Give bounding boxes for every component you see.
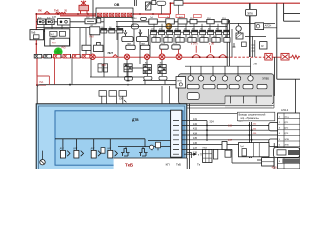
- rounded box EPV lower: [187, 93, 199, 100]
- breaker V top with hatch: [93, 0, 151, 18]
- wire black row y77: [90, 58, 165, 85]
- svg-text:ЭПК: ЭПК: [247, 11, 253, 15]
- svg-text:РкЛ: РкЛ: [90, 36, 95, 39]
- wire comb verticals rows A-B: [154, 24, 226, 30]
- sensor block D2: [73, 148, 83, 158]
- mini box on vertical bus: [187, 153, 192, 159]
- breaker red box right 2: [281, 53, 289, 60]
- svg-text:АЛСН: АЛСН: [265, 24, 272, 27]
- contact chain black caps: [42, 54, 80, 58]
- node red dots row y57: [192, 56, 227, 58]
- svg-text:6: 6: [252, 77, 253, 79]
- svg-text:Д2Т: Д2Т: [73, 148, 78, 150]
- valve circle 4: [222, 76, 227, 81]
- svg-text:Д4Т: Д4Т: [107, 148, 112, 150]
- svg-text:324: 324: [209, 120, 214, 124]
- rounded box row C2: [136, 37, 147, 42]
- svg-text:ПкБ: ПкБ: [31, 32, 36, 35]
- resistor R bottom: [222, 142, 227, 150]
- box EPV left white: [176, 77, 186, 88]
- resistor top: [157, 1, 166, 5]
- labels EPV circles: [193, 77, 254, 79]
- relay small in panel right: [156, 142, 161, 148]
- node dot on enclosure: [127, 84, 129, 86]
- box with circle right: [255, 23, 264, 30]
- labels tiny row B: [151, 29, 219, 31]
- relay grid box VZ2: [158, 65, 166, 74]
- relay box row C9: [224, 38, 230, 43]
- wire red dashed bus segment: [226, 56, 265, 58]
- switch PkT red: [113, 55, 118, 58]
- wire KVN bus: [249, 122, 251, 158]
- pressure stack right: [236, 31, 243, 39]
- relay box row C7: [200, 38, 208, 43]
- svg-text:РЫ: РЫ: [52, 37, 55, 39]
- inductor TkB coil on bus B: [56, 13, 66, 15]
- svg-text:435: 435: [193, 137, 198, 140]
- svg-text:132: 132: [228, 124, 233, 127]
- svg-text:ЭПК: ЭПК: [284, 144, 289, 146]
- svg-text:АЛ4-2: АЛ4-2: [281, 108, 289, 112]
- sensor block D4: [107, 148, 117, 158]
- caption text lines: [190, 112, 275, 121]
- wire y36 right: [245, 36, 266, 57]
- wire black y23.5 right: [230, 22, 275, 24]
- labels tiny left rows: [38, 17, 137, 29]
- svg-text:ДТВ: ДТВ: [132, 118, 139, 122]
- rounded box row D3: [160, 45, 168, 49]
- wire y96: [225, 96, 272, 103]
- gauge circle right: [236, 26, 241, 31]
- wire top line of EPV: [185, 58, 251, 75]
- svg-text:ПкТ: ПкТ: [50, 34, 55, 36]
- contact chain cross marks black: [35, 55, 47, 58]
- wire pin leads: [182, 121, 278, 150]
- switch box small: [97, 18, 101, 23]
- svg-text:ТкБ: ТкБ: [176, 162, 181, 166]
- svg-text:ОВ: ОВ: [114, 3, 120, 7]
- svg-text:к ЭВ: к ЭВ: [209, 42, 214, 45]
- checkered relay row B right: [151, 30, 230, 34]
- relay coil red circle 3: [144, 54, 149, 59]
- wire box small left: [225, 150, 231, 157]
- label box white bottom: [114, 158, 231, 169]
- relay box row C8: [212, 38, 220, 43]
- rounded box row C1: [122, 37, 133, 42]
- svg-text:ЗБ: ЗБ: [64, 9, 68, 12]
- resistor zigzag right: [292, 55, 301, 59]
- nested border fill below EPV: [225, 96, 272, 108]
- contact symbol mid 2: [139, 30, 142, 36]
- small box right of PV4: [213, 150, 217, 160]
- svg-text:ПНТ: ПНТ: [108, 51, 114, 55]
- relay coil red circle 5: [176, 54, 182, 60]
- contact arc red 1: [193, 55, 200, 57]
- wire red vertical to Rk1: [37, 58, 46, 85]
- svg-text:434: 434: [193, 132, 198, 135]
- rounded box row D2: [140, 45, 149, 49]
- terminal rounded box EPV row 5: [243, 84, 253, 88]
- checkered pair mid: [98, 64, 108, 72]
- svg-text:Д1Т: Д1Т: [60, 148, 65, 150]
- switch contact on bus B: [44, 12, 50, 15]
- svg-text:ТкБ: ТкБ: [125, 163, 134, 168]
- small box right: [242, 42, 247, 47]
- wire y80.4 under grids: [143, 74, 176, 81]
- wire panel link y140: [148, 139, 171, 141]
- svg-text:137: 137: [193, 147, 198, 150]
- svg-text:общ.: общ.: [284, 116, 289, 118]
- valve circle 1: [188, 76, 193, 81]
- node bus 324: [206, 120, 214, 141]
- wire battery drops: [104, 18, 133, 40]
- component on blue left of cluster: [101, 148, 105, 154]
- svg-text:ТрПШ: ТрПШ: [131, 18, 137, 20]
- label frame red 1: [159, 14, 170, 17]
- relay box row A2: [166, 19, 175, 24]
- terminal rounded box EPV row 2: [203, 84, 215, 88]
- box PkB: [30, 30, 44, 40]
- wire red bus y57: [36, 56, 292, 58]
- box RY group: [50, 37, 69, 46]
- contact chain red row y56: [34, 54, 90, 58]
- svg-text:+ПВ: +ПВ: [253, 64, 258, 66]
- labels tiny row C: [153, 36, 228, 38]
- svg-text:ОВ: ОВ: [119, 96, 123, 100]
- svg-text:5: 5: [240, 77, 241, 79]
- wire panel right links: [118, 147, 171, 151]
- relay coil red circle 2: [124, 54, 129, 59]
- resistor R5: [97, 42, 101, 49]
- wire panel internal main: [55, 139, 145, 151]
- wire verticals mid grid: [44, 23, 222, 85]
- junction box small 1: [99, 91, 106, 97]
- svg-text:4: 4: [227, 77, 228, 79]
- svg-text:42-В: 42-В: [272, 166, 277, 169]
- svg-text:РЮ: РЮ: [102, 64, 107, 67]
- relay box top edge 2: [174, 1, 183, 6]
- wire black row y21.5: [36, 21, 230, 23]
- svg-text:ЭПВ: ЭПВ: [177, 80, 182, 82]
- nested border lines below EPV: [180, 96, 274, 108]
- valve assembly top right: [246, 3, 257, 57]
- panel DTV outer box: [36, 104, 187, 170]
- wire black row y31.5: [44, 31, 230, 32]
- wire bottom right links: [232, 125, 274, 169]
- svg-text:кор. «Триангель»: кор. «Триангель»: [241, 118, 260, 120]
- wire black row y26.4: [116, 22, 227, 27]
- oval box y18: [141, 17, 147, 20]
- wire red left vertical bus: [35, 13, 37, 58]
- valve circle 3: [210, 76, 215, 81]
- junction box small 3: [119, 91, 126, 97]
- wire drops to panel top: [102, 86, 170, 103]
- relay grid box VZ1: [143, 65, 151, 74]
- svg-text:131: 131: [193, 118, 198, 121]
- wire black double vertical x227: [227, 20, 229, 66]
- relay cluster panel 1: [121, 149, 130, 156]
- breaker red box right 1: [265, 53, 272, 60]
- svg-text:к ЭТЛ: к ЭТЛ: [191, 42, 198, 45]
- relay box row A1: [149, 19, 158, 24]
- relay box ZB2: [85, 19, 96, 24]
- relay box PV4: [203, 148, 212, 163]
- contactor block 3: [58, 19, 71, 25]
- valve circle 2: [198, 76, 203, 81]
- svg-text:3: 3: [215, 77, 216, 79]
- red verticals from bus y57 up: [161, 46, 210, 54]
- sensor block D1: [60, 148, 70, 158]
- capacitor C1 top: [135, 0, 137, 6]
- relay box row A4: [190, 19, 197, 23]
- labels tiny row D: [127, 43, 178, 45]
- svg-text:ЭПВ: ЭПВ: [284, 139, 289, 141]
- relay box RkV: [94, 45, 103, 51]
- terminal rounded box EPV row 1: [187, 84, 199, 88]
- svg-text:Д3Т: Д3Т: [91, 148, 96, 150]
- contact chain cross marks: [54, 55, 85, 58]
- rounded box under VZ1: [144, 76, 152, 80]
- panel DTV inner box: [55, 111, 183, 165]
- relay cluster panel 2: [139, 149, 148, 156]
- lamp circle panel: [40, 151, 45, 165]
- relay box row C3: [152, 38, 160, 43]
- marker green arrow: [54, 47, 63, 56]
- table terminal list: [278, 113, 300, 169]
- box group PkT Rk: [45, 29, 70, 46]
- svg-text:ЭПВ5: ЭПВ5: [262, 76, 269, 80]
- breaker BA red switch assembly: [79, 1, 89, 15]
- relay coil red circle 1: [90, 54, 95, 59]
- wire comb verticals rows B-C: [156, 35, 226, 38]
- svg-text:РкТ: РкТ: [52, 42, 56, 44]
- svg-text:136: 136: [193, 142, 198, 145]
- switch OV symbol: [124, 100, 126, 102]
- enclosure rounded top edge: [37, 85, 178, 104]
- wire right edge verticals: [277, 3, 300, 79]
- panel DTV outer inner border: [38, 106, 184, 170]
- valve circle 6: [248, 76, 253, 81]
- label frame red 2: [176, 14, 185, 17]
- wire right lower: [274, 57, 300, 113]
- junction box small 2: [109, 91, 116, 97]
- relay box RkT: [82, 45, 91, 50]
- node brass junction: [166, 23, 172, 29]
- panel EPV grey box: [179, 74, 274, 104]
- relay box row A3: [178, 19, 187, 24]
- svg-text:1: 1: [193, 77, 194, 79]
- relay box row C4: [164, 38, 172, 43]
- svg-text:137: 137: [228, 139, 233, 142]
- relay grid box VZ0: [124, 64, 132, 72]
- arrow to k77: [184, 153, 203, 156]
- relay box row C5: [176, 38, 184, 43]
- contact arc red 3: [219, 55, 226, 57]
- wire vertical right of panel: [187, 103, 189, 169]
- terminal block right: [269, 123, 279, 147]
- label frame red 3: [194, 14, 202, 17]
- contact symbol mid 1: [124, 30, 127, 36]
- relay coil red circle 4: [159, 54, 165, 60]
- contactor block 2: [46, 19, 54, 25]
- wire drops from top boxes: [161, 5, 178, 14]
- box R right: [260, 42, 267, 49]
- rounded box row D4: [172, 45, 180, 49]
- svg-text:ЛК: ЛК: [38, 8, 42, 12]
- rounded box row D1: [126, 45, 135, 49]
- rounded box under VZ2: [159, 76, 167, 80]
- wire red top bus: [36, 3, 300, 16]
- relay box row A6: [222, 19, 229, 23]
- checkered relay row B: [101, 28, 123, 33]
- sensor block D3: [91, 148, 101, 158]
- terminal ticks on vertical pair: [251, 45, 254, 51]
- label box top border: [114, 157, 187, 159]
- terminal rounded box EPV row 4: [229, 84, 239, 88]
- relay box row A5: [207, 19, 214, 23]
- node dots KVN: [249, 125, 253, 141]
- valve circle 5: [235, 76, 240, 81]
- svg-text:132: 132: [193, 123, 198, 126]
- fuse box top: [152, 0, 156, 4]
- terminal rounded box EPV row 3: [217, 84, 227, 88]
- switch T symbol: [127, 77, 130, 81]
- rounded box under VZ0: [125, 76, 133, 80]
- svg-text:Рк1: Рк1: [40, 81, 45, 84]
- relay box row C6: [188, 38, 196, 43]
- svg-text:137: 137: [52, 16, 57, 19]
- svg-text:РЮ: РЮ: [62, 46, 67, 49]
- wire VZ0-VZ1 link: [128, 68, 143, 77]
- contact arc red 2: [207, 55, 214, 57]
- rounded legend box right: [274, 148, 300, 158]
- svg-text:2: 2: [203, 77, 204, 79]
- svg-text:Выводы соединительной: Выводы соединительной: [239, 114, 266, 117]
- svg-text:РкБ: РкБ: [51, 39, 55, 41]
- indicator circle in panel right: [150, 145, 154, 149]
- terminal rounded box EPV row 6: [257, 84, 267, 88]
- svg-text:ТкБ: ТкБ: [54, 8, 59, 12]
- ground tick right: [232, 29, 235, 57]
- junction box bottom right: [262, 158, 274, 166]
- pin number labels red: [193, 118, 198, 155]
- junction box PChB: [239, 143, 270, 157]
- transformer box: [131, 24, 138, 29]
- node junction dots on buses: [35, 2, 171, 86]
- battery GB box: [96, 8, 133, 18]
- svg-text:КП: КП: [166, 162, 170, 166]
- connector X1 block: [171, 110, 182, 157]
- svg-text:433: 433: [193, 128, 198, 131]
- wire black row y27.5 left: [36, 25, 90, 54]
- node dot enclosure: [69, 84, 71, 86]
- box VU1: [90, 27, 100, 35]
- wire from circle box to right bus: [239, 23, 277, 27]
- contactor block 1: [38, 19, 46, 25]
- wire red vertical x54.5: [54, 58, 56, 85]
- labels tiny row A: [150, 17, 227, 20]
- relay Rk1 red box: [37, 76, 49, 85]
